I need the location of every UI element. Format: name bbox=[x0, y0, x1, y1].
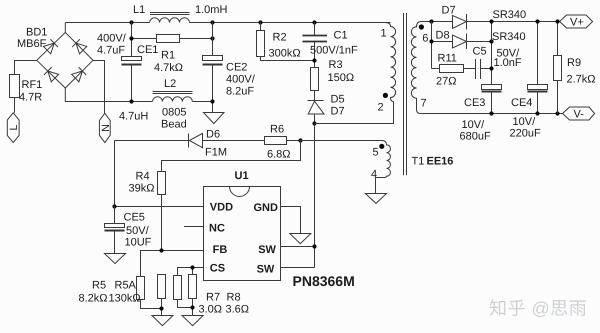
svg-text:CE3: CE3 bbox=[464, 97, 485, 109]
svg-text:R3: R3 bbox=[329, 59, 343, 71]
wire D8 branch vertical bbox=[432, 22, 453, 69]
junction bbox=[129, 36, 133, 40]
svg-text:4.7kΩ: 4.7kΩ bbox=[154, 62, 183, 74]
wire FB bbox=[141, 251, 204, 277]
svg-text:27Ω: 27Ω bbox=[436, 76, 456, 88]
junction bbox=[312, 20, 316, 24]
svg-text:F1M: F1M bbox=[205, 147, 227, 159]
svg-text:SR340: SR340 bbox=[492, 31, 526, 43]
wire L2 to CE2 node bbox=[192, 101, 212, 103]
svg-text:D6: D6 bbox=[206, 128, 220, 140]
phase dot pin 2 bbox=[383, 93, 388, 98]
svg-text:D5: D5 bbox=[331, 93, 345, 105]
svg-text:5: 5 bbox=[373, 147, 379, 159]
svg-text:10V/: 10V/ bbox=[513, 116, 537, 128]
resistor R11 27 (snubber) bbox=[432, 53, 476, 88]
junction bbox=[258, 20, 262, 24]
capacitor CE5 50V/10UF bbox=[105, 207, 152, 254]
wire bridge top vertex up bbox=[64, 23, 66, 33]
svg-text:CE2: CE2 bbox=[226, 62, 247, 74]
wire CE2 branch bbox=[212, 23, 214, 113]
capacitor CE2 400V/8.2uF bbox=[203, 56, 256, 98]
svg-text:Bead: Bead bbox=[161, 119, 187, 131]
wire D5 node to transformer pin 2 bbox=[315, 102, 394, 124]
svg-text:2: 2 bbox=[378, 102, 384, 114]
wire R6 node to aux winding pin5 bbox=[301, 140, 382, 142]
svg-text:1: 1 bbox=[381, 28, 387, 40]
wire V-minus rail bbox=[421, 113, 563, 115]
svg-text:680uF: 680uF bbox=[460, 130, 491, 142]
svg-text:GND: GND bbox=[254, 202, 279, 214]
svg-text:R11: R11 bbox=[438, 53, 457, 65]
svg-text:400V/: 400V/ bbox=[97, 33, 127, 45]
capacitor CE4 10V/220uF bbox=[510, 22, 548, 140]
svg-text:N: N bbox=[100, 124, 112, 132]
svg-text:EE16: EE16 bbox=[427, 156, 454, 168]
svg-text:39kΩ: 39kΩ bbox=[129, 183, 155, 195]
junction bbox=[210, 20, 214, 24]
terminal V- bbox=[563, 107, 595, 121]
svg-text:SR340: SR340 bbox=[493, 9, 527, 21]
junction bbox=[535, 111, 539, 115]
wire top rail middle bbox=[190, 22, 391, 24]
wire bridge right vertex to N terminal bbox=[93, 61, 105, 114]
svg-text:D7: D7 bbox=[331, 105, 345, 117]
svg-text:4: 4 bbox=[371, 169, 377, 181]
svg-text:R8: R8 bbox=[227, 292, 241, 304]
svg-text:4.7uH: 4.7uH bbox=[119, 111, 148, 123]
svg-text:L2: L2 bbox=[164, 78, 176, 90]
svg-text:7: 7 bbox=[421, 98, 427, 110]
ground under aux winding bbox=[365, 194, 386, 204]
svg-text:U1: U1 bbox=[235, 170, 249, 182]
phase dot pin 5 bbox=[379, 144, 384, 149]
ground under R5A bbox=[152, 316, 173, 326]
svg-text:MB6F: MB6F bbox=[17, 38, 47, 50]
wire VDD feed from D6 bbox=[114, 141, 116, 207]
diode D7 SR340 bbox=[442, 5, 527, 30]
svg-text:R9: R9 bbox=[567, 57, 581, 69]
svg-text:220uF: 220uF bbox=[510, 128, 541, 140]
junction bbox=[312, 244, 316, 248]
junction bbox=[312, 121, 316, 125]
svg-text:2.7kΩ: 2.7kΩ bbox=[567, 74, 596, 86]
svg-text:500V/1nF: 500V/1nF bbox=[310, 45, 358, 57]
junction bbox=[555, 111, 559, 115]
svg-text:8.2uF: 8.2uF bbox=[226, 86, 254, 98]
terminal L bbox=[7, 113, 20, 143]
wire D8 cathode to output node bbox=[467, 41, 492, 43]
transformer core bbox=[404, 13, 407, 175]
svg-text:300kΩ: 300kΩ bbox=[269, 48, 301, 60]
wire switch node vertical to SW pins bbox=[281, 124, 315, 268]
wire GND pin to ground bbox=[281, 207, 301, 234]
svg-text:C5: C5 bbox=[473, 46, 487, 58]
svg-text:10V/: 10V/ bbox=[462, 119, 486, 131]
resistor RF1 bbox=[10, 75, 43, 104]
capacitor CE1 400V/4.7uF bbox=[97, 33, 158, 65]
junction bbox=[190, 265, 194, 269]
svg-text:400V/: 400V/ bbox=[226, 74, 256, 86]
svg-text:PN8366M: PN8366M bbox=[293, 273, 355, 289]
svg-text:3.0Ω: 3.0Ω bbox=[199, 304, 223, 316]
svg-text:R2: R2 bbox=[273, 32, 287, 44]
svg-text:R7: R7 bbox=[206, 292, 220, 304]
capacitor C1 500V/1nF bbox=[303, 23, 358, 68]
ground under GND pin bbox=[290, 234, 311, 244]
ground under CE2 bbox=[204, 113, 225, 124]
resistor R6 6.8 bbox=[265, 124, 301, 161]
svg-text:4.7uF: 4.7uF bbox=[97, 45, 125, 57]
wire top rail left bbox=[65, 22, 149, 24]
capacitor C5 50V/1.0nF bbox=[473, 46, 522, 80]
junction bbox=[312, 58, 316, 62]
wire secondary top rail bbox=[422, 21, 560, 23]
svg-text:RF1: RF1 bbox=[22, 79, 43, 91]
wire VDD rail bbox=[115, 206, 204, 208]
wire CS bbox=[178, 268, 204, 276]
svg-text:BD1: BD1 bbox=[26, 27, 47, 39]
resistor R4 39k bbox=[129, 171, 166, 251]
svg-text:R5A: R5A bbox=[115, 280, 137, 292]
capacitor CE3 10V/680uF bbox=[460, 85, 502, 143]
diode D8 SR340 bbox=[436, 30, 526, 50]
junction bbox=[190, 305, 194, 309]
svg-text:8.2kΩ: 8.2kΩ bbox=[79, 293, 108, 305]
svg-text:L1: L1 bbox=[133, 4, 145, 16]
svg-text:R5: R5 bbox=[92, 280, 106, 292]
junction bbox=[210, 99, 214, 103]
svg-text:CE1: CE1 bbox=[137, 44, 158, 56]
svg-text:SW: SW bbox=[257, 264, 275, 276]
junction bbox=[489, 66, 493, 70]
svg-text:6: 6 bbox=[422, 33, 428, 45]
terminal V+ bbox=[560, 15, 593, 29]
svg-text:V-: V- bbox=[574, 109, 585, 121]
svg-text:150Ω: 150Ω bbox=[328, 72, 355, 84]
junction bbox=[159, 248, 163, 252]
svg-text:50V/: 50V/ bbox=[126, 225, 150, 237]
junction bbox=[555, 19, 559, 23]
resistor R1 4.7k bbox=[132, 35, 213, 74]
op-amp U1 PN8366M chip body bbox=[204, 170, 355, 289]
wire bridge left vertex to RF1 bbox=[15, 61, 37, 75]
resistor R9 2.7k bbox=[554, 22, 596, 114]
svg-text:T1: T1 bbox=[412, 156, 425, 168]
resistor R2 300k bbox=[257, 23, 315, 61]
transformer aux winding pins 5-4 bbox=[371, 141, 390, 194]
ground under CE5 bbox=[105, 254, 126, 264]
junction bbox=[210, 36, 214, 40]
resistor R3 150 bbox=[311, 59, 355, 101]
inductor L2 0805 Bead 4.7uH bbox=[119, 78, 192, 131]
junction bbox=[489, 39, 493, 43]
resistor R7 3.0 bbox=[174, 276, 223, 316]
label T1 EE16 bbox=[412, 156, 454, 168]
svg-text:4.7R: 4.7R bbox=[19, 92, 42, 104]
junction bbox=[129, 99, 133, 103]
svg-text:CE5: CE5 bbox=[124, 212, 145, 224]
svg-text:L: L bbox=[8, 125, 20, 131]
svg-text:0805: 0805 bbox=[162, 107, 186, 119]
junction bbox=[112, 204, 116, 208]
inductor L1 1.0mH bbox=[133, 4, 227, 23]
phase dot pin 6 bbox=[419, 24, 424, 29]
junction bbox=[489, 19, 493, 23]
junction bbox=[535, 19, 539, 23]
svg-text:NC: NC bbox=[209, 222, 225, 234]
svg-text:R6: R6 bbox=[270, 124, 284, 136]
junction bbox=[129, 20, 133, 24]
svg-text:10UF: 10UF bbox=[125, 237, 152, 249]
resistor R8 3.6 bbox=[189, 275, 250, 316]
wire RF1 to L terminal bbox=[14, 98, 16, 113]
svg-text:C1: C1 bbox=[334, 30, 348, 42]
wire output node vertical to CE3 bbox=[491, 22, 493, 85]
svg-text:知乎 @思雨: 知乎 @思雨 bbox=[489, 299, 587, 319]
svg-text:1.0nF: 1.0nF bbox=[494, 57, 522, 69]
svg-text:D8: D8 bbox=[436, 30, 450, 42]
svg-text:SW: SW bbox=[258, 244, 276, 256]
svg-text:D7: D7 bbox=[442, 5, 456, 17]
junction bbox=[159, 306, 163, 310]
terminal N bbox=[99, 113, 111, 142]
svg-text:6.8Ω: 6.8Ω bbox=[267, 149, 291, 161]
wire bridge bottom to minus rail bbox=[65, 88, 152, 102]
svg-text:CS: CS bbox=[210, 263, 225, 275]
svg-text:V+: V+ bbox=[570, 17, 584, 29]
resistor R5A 130k bbox=[109, 275, 166, 316]
svg-text:R4: R4 bbox=[136, 171, 150, 183]
wire CE1 branch bbox=[131, 23, 133, 102]
diode D6 F1M bbox=[115, 128, 265, 158]
svg-text:CE4: CE4 bbox=[511, 97, 532, 109]
svg-text:FB: FB bbox=[213, 244, 228, 256]
transformer secondary winding pins 6-7 bbox=[411, 22, 428, 114]
svg-text:R1: R1 bbox=[161, 49, 175, 61]
svg-text:1.0mH: 1.0mH bbox=[195, 4, 227, 16]
junction bbox=[298, 138, 302, 142]
bridge rectifier BD1 MB6F bbox=[17, 27, 93, 89]
junction bbox=[489, 111, 493, 115]
svg-text:3.6Ω: 3.6Ω bbox=[226, 304, 250, 316]
ground under R8 bbox=[182, 316, 203, 326]
diode D5 (clamp) bbox=[308, 93, 345, 123]
junction bbox=[429, 19, 433, 23]
resistor R5 8.2k bbox=[79, 277, 162, 309]
svg-text:130kΩ: 130kΩ bbox=[109, 293, 141, 305]
junction bbox=[429, 39, 433, 43]
transformer T1 primary winding pins 1-2 bbox=[378, 23, 396, 114]
wire R6 node to R4 bbox=[162, 141, 301, 172]
svg-text:VDD: VDD bbox=[210, 201, 233, 213]
pin stub NC bbox=[184, 226, 204, 228]
